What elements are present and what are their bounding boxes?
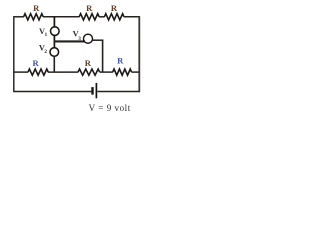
voltmeter V2	[50, 48, 59, 57]
wire top-right segment	[124, 16, 140, 18]
voltmeter V1	[51, 27, 60, 36]
wire bottom-row second segment	[48, 71, 78, 73]
svg-text:1: 1	[45, 32, 48, 38]
svg-text:R: R	[111, 3, 118, 13]
wire stub V1 to V2	[53, 35, 55, 48]
wire stub from top to V1	[53, 17, 55, 27]
wire right side	[138, 16, 140, 92]
wire top-left segment	[14, 16, 24, 18]
wire bottom right of battery	[97, 91, 139, 93]
resistor R2 (top-middle)	[79, 14, 99, 20]
resistor R4 (bottom-left)	[28, 69, 48, 75]
wire V3 drop to bottom row	[102, 40, 104, 72]
svg-text:2: 2	[44, 49, 47, 55]
wire between top resistors	[99, 16, 105, 18]
wire bottom-row third segment	[100, 71, 113, 73]
battery negative plate (short thick)	[91, 87, 93, 95]
wire bottom-row right segment	[131, 71, 139, 73]
svg-text:R: R	[85, 58, 92, 68]
svg-text:R: R	[32, 58, 39, 68]
wire middle horizontal to V3	[54, 40, 85, 42]
resistor R1 (top-left)	[24, 14, 44, 20]
wire V3 right segment	[92, 39, 103, 41]
wire top-middle segment	[43, 16, 79, 18]
resistor R6 (bottom-right)	[113, 69, 132, 75]
svg-text:R: R	[117, 56, 124, 66]
voltmeter V3	[83, 34, 92, 43]
resistor R3 (top-right)	[104, 14, 124, 20]
wire bottom left of battery	[14, 91, 92, 93]
svg-text:R: R	[33, 3, 40, 13]
svg-text:R: R	[86, 3, 93, 13]
wire stub V2 to bottom row	[53, 56, 55, 72]
wire bottom-row left segment	[14, 71, 28, 73]
svg-text:3: 3	[78, 36, 81, 42]
svg-text:V = 9 volt: V = 9 volt	[89, 103, 131, 113]
battery positive plate (long thin)	[95, 83, 97, 98]
resistor R5 (bottom-middle)	[78, 69, 100, 75]
wire left side	[13, 16, 15, 92]
